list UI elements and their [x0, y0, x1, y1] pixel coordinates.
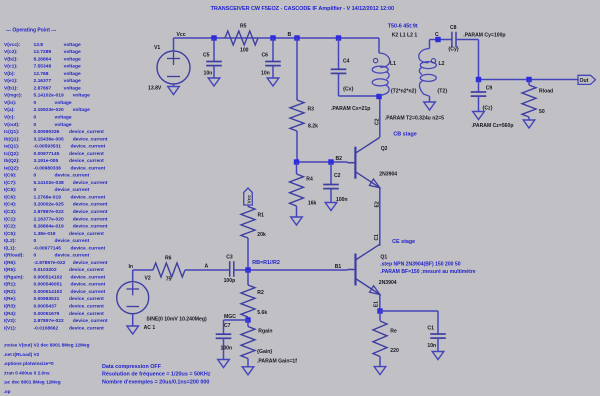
- svg-text:device_current: device_current: [73, 136, 108, 142]
- svg-text:I(Rgain):: I(Rgain):: [4, 274, 24, 280]
- Out port flag: [578, 75, 596, 84]
- svg-text:0: 0: [34, 253, 37, 259]
- svg-text:0: 0: [34, 122, 37, 128]
- junction at C2cap: [328, 159, 333, 164]
- svg-text:I(C4):: I(C4):: [4, 202, 17, 208]
- svg-text:C5: C5: [203, 53, 210, 59]
- svg-text:E1: E1: [374, 301, 380, 307]
- svg-text:R3: R3: [308, 107, 315, 113]
- svg-text:1.2768e-019: 1.2768e-019: [34, 195, 62, 201]
- svg-text:voltage: voltage: [55, 122, 72, 128]
- svg-text:Ic(Q1):: Ic(Q1):: [4, 129, 20, 135]
- resistor R2: [247, 270, 249, 285]
- svg-text:0.00983531: 0.00983531: [34, 296, 60, 302]
- svg-text:2.16377e-020: 2.16377e-020: [34, 216, 64, 222]
- svg-text:voltage: voltage: [64, 85, 81, 91]
- svg-text:B1: B1: [335, 264, 342, 270]
- resistor Re: [379, 311, 381, 321]
- svg-text:R6: R6: [165, 256, 172, 262]
- svg-text:V(e1):: V(e1):: [4, 78, 18, 84]
- wire node B2: [297, 161, 348, 163]
- svg-text:I(R3):: I(R3):: [4, 304, 17, 310]
- inductor L2: [429, 40, 431, 49]
- svg-text:device_current: device_current: [73, 180, 108, 186]
- svg-text:A: A: [205, 264, 209, 270]
- svg-text:device_current: device_current: [69, 296, 104, 302]
- svg-text:-0.0108662: -0.0108662: [34, 325, 59, 331]
- svg-text:C7: C7: [224, 323, 231, 329]
- svg-text:0.00590336: 0.00590336: [34, 129, 60, 135]
- svg-text:Rload: Rload: [539, 89, 553, 95]
- transistor Q2: [354, 147, 356, 179]
- resistor R5: [225, 31, 258, 45]
- svg-text:50: 50: [539, 109, 545, 115]
- svg-text:100: 100: [240, 48, 249, 54]
- ground of C6: [267, 78, 279, 86]
- svg-text:;ac dec 8001 8Meg 12Meg: ;ac dec 8001 8Meg 12Meg: [4, 380, 61, 385]
- svg-text:CE stage: CE stage: [392, 239, 415, 245]
- svg-text:I(R6):: I(R6):: [4, 260, 17, 266]
- svg-text:device_current: device_current: [69, 158, 104, 164]
- svg-text:10n: 10n: [427, 343, 436, 349]
- svg-text:SINE(0 10mV 10.240Meg): SINE(0 10mV 10.240Meg): [146, 317, 207, 323]
- svg-text:I(Rload):: I(Rload):: [4, 253, 24, 259]
- svg-text:device_current: device_current: [73, 260, 108, 266]
- svg-text:2.87897e-022: 2.87897e-022: [34, 318, 64, 324]
- svg-text:voltage: voltage: [64, 56, 81, 62]
- svg-text:10n: 10n: [204, 70, 213, 76]
- svg-text:8.26864e-019: 8.26864e-019: [34, 224, 64, 230]
- svg-text:device_current: device_current: [69, 129, 104, 135]
- svg-text:R5: R5: [240, 23, 247, 29]
- svg-text:device_current: device_current: [69, 267, 104, 273]
- svg-text:0: 0: [34, 100, 37, 106]
- svg-text:E2: E2: [375, 201, 381, 207]
- wire Vcc top rail: [174, 37, 380, 39]
- svg-text:{Cx}: {Cx}: [343, 87, 353, 93]
- junction at C6: [270, 35, 275, 40]
- svg-text:10n: 10n: [261, 70, 270, 76]
- svg-text:12.768: 12.768: [34, 71, 49, 77]
- svg-text:0: 0: [34, 187, 37, 193]
- svg-text:voltage: voltage: [64, 78, 81, 84]
- svg-text:MGC: MGC: [224, 314, 236, 320]
- svg-text:I(C7):: I(C7):: [4, 180, 17, 186]
- resistor R6: [153, 263, 185, 277]
- svg-text:device_current: device_current: [73, 202, 108, 208]
- svg-text:V(a):: V(a):: [4, 107, 15, 113]
- svg-text:I(R4):: I(R4):: [4, 311, 17, 317]
- svg-text:device_current: device_current: [69, 231, 104, 237]
- junction C9: [476, 77, 481, 82]
- svg-text:Vcc: Vcc: [246, 195, 252, 204]
- ground of V2: [132, 314, 134, 326]
- ground of L2: [429, 96, 431, 102]
- svg-text:Ie(Q1):: Ie(Q1):: [4, 144, 20, 150]
- ground of Re: [374, 367, 386, 375]
- svg-text:Ib(Q1):: Ib(Q1):: [4, 136, 20, 142]
- svg-text:V(b):: V(b):: [4, 71, 16, 77]
- svg-text:device_current: device_current: [71, 165, 106, 171]
- svg-text:C1: C1: [374, 234, 380, 241]
- capacitor C8: [451, 32, 453, 48]
- wire E1 to C1: [380, 310, 438, 312]
- svg-text:voltage: voltage: [73, 93, 90, 99]
- junction MGC: [245, 317, 250, 322]
- svg-text:L1: L1: [390, 61, 396, 67]
- svg-text:R4: R4: [306, 177, 313, 183]
- svg-text:I(C8):: I(C8):: [4, 187, 17, 193]
- svg-text:8.2k: 8.2k: [308, 123, 318, 129]
- capacitor C7: [223, 320, 225, 334]
- svg-text:I(C2):: I(C2):: [4, 224, 17, 230]
- svg-text:device_current: device_current: [69, 304, 104, 310]
- ground of C1: [432, 352, 444, 360]
- svg-text:{Cy}: {Cy}: [448, 47, 458, 53]
- svg-text:C4: C4: [343, 58, 350, 64]
- svg-text:CB stage: CB stage: [393, 132, 416, 138]
- svg-text:-0.00593531: -0.00593531: [34, 144, 62, 150]
- svg-text:Q2: Q2: [381, 146, 388, 152]
- svg-text:16k: 16k: [308, 201, 317, 207]
- svg-text:Ib(Q2):: Ib(Q2):: [4, 158, 20, 164]
- svg-text:;noise V(out) V2 dec 8001 8Meg: ;noise V(out) V2 dec 8001 8Meg 12Meg: [4, 343, 90, 348]
- svg-text:3.20002e-025: 3.20002e-025: [34, 202, 64, 208]
- svg-text:I(V2):: I(V2):: [4, 318, 17, 324]
- svg-text:C2: C2: [375, 118, 381, 125]
- svg-text:100n: 100n: [221, 346, 233, 352]
- svg-text:V(out):: V(out):: [4, 122, 20, 128]
- svg-text:device_current: device_current: [71, 289, 106, 295]
- svg-text:I(C6):: I(C6):: [4, 195, 17, 201]
- svg-text:device_current: device_current: [71, 195, 106, 201]
- svg-text:.PARAM Gain=1f: .PARAM Gain=1f: [257, 359, 297, 365]
- svg-text:V(b1):: V(b1):: [4, 85, 18, 91]
- wire Q2 collector: [379, 97, 381, 138]
- svg-text:Résolution de fréquence = 1/20: Résolution de fréquence = 1/20us = 50KHz: [102, 372, 211, 378]
- junction E1: [377, 308, 382, 313]
- svg-text:V(c2):: V(c2):: [4, 49, 18, 55]
- svg-text:device_current: device_current: [73, 318, 108, 324]
- svg-text:T50-6 45t:9t: T50-6 45t:9t: [388, 23, 418, 29]
- junction at C4: [336, 35, 341, 40]
- svg-text:0.0005437: 0.0005437: [34, 304, 57, 310]
- ground of C5: [208, 78, 220, 86]
- ground of Rgain: [242, 367, 254, 375]
- svg-text:Vcc: Vcc: [177, 32, 186, 38]
- wire L2 to C8: [430, 39, 452, 41]
- svg-text:V(c):: V(c):: [4, 115, 15, 121]
- svg-text:7.55348: 7.55348: [34, 64, 52, 70]
- svg-text:device_current: device_current: [69, 151, 104, 157]
- ground of C2: [325, 203, 337, 211]
- svg-text:device_current: device_current: [71, 274, 106, 280]
- svg-text:13.8: 13.8: [34, 42, 44, 48]
- svg-text:device_current: device_current: [55, 173, 90, 179]
- simulation note text: [102, 364, 211, 386]
- svg-text:C8: C8: [450, 25, 457, 31]
- svg-text:.op: .op: [4, 389, 11, 394]
- resistor Rgain: [247, 320, 249, 327]
- svg-text:Re: Re: [390, 329, 397, 335]
- transistor Q1: [354, 254, 356, 286]
- wire out rail: [479, 79, 579, 81]
- svg-text:Ic(Q2):: Ic(Q2):: [4, 151, 20, 157]
- svg-text:0.000514102: 0.000514102: [34, 289, 63, 295]
- svg-text:C3: C3: [226, 255, 233, 261]
- svg-text:12.7289: 12.7289: [34, 49, 52, 55]
- svg-text:.PARAM T2=0.324u n2=5: .PARAM T2=0.324u n2=5: [385, 115, 444, 121]
- svg-text:2.87897e-022: 2.87897e-022: [34, 209, 64, 215]
- svg-text:V2: V2: [145, 276, 151, 282]
- svg-text:device_current: device_current: [69, 325, 104, 331]
- svg-text:voltage: voltage: [64, 42, 81, 48]
- svg-text:Data compression OFF: Data compression OFF: [102, 364, 162, 370]
- svg-text:In: In: [129, 264, 134, 270]
- voltage source V1: [173, 38, 175, 51]
- svg-text:voltage: voltage: [55, 100, 72, 106]
- svg-text:V1: V1: [154, 45, 160, 51]
- svg-text:device_current: device_current: [69, 311, 104, 317]
- svg-text:8.26864: 8.26864: [34, 56, 52, 62]
- svg-text:device_current: device_current: [55, 238, 90, 244]
- svg-text:75: 75: [166, 277, 172, 283]
- svg-text:device_current: device_current: [71, 245, 106, 251]
- svg-text:device_current: device_current: [71, 282, 106, 288]
- wire Q2 emitter to Q1 collector: [379, 188, 381, 246]
- ground of Rload: [523, 120, 535, 128]
- svg-text:I(R2):: I(R2):: [4, 289, 17, 295]
- wire node B1: [248, 269, 348, 271]
- junction node C: [435, 37, 440, 42]
- svg-text:C6: C6: [262, 53, 269, 59]
- svg-text:I(Re):: I(Re):: [4, 296, 17, 302]
- capacitor C4: [338, 38, 340, 69]
- junction Rload: [526, 77, 531, 82]
- svg-text:1.38e-019: 1.38e-019: [34, 231, 56, 237]
- capacitor C9: [478, 80, 480, 93]
- svg-text:I(C9):: I(C9):: [4, 173, 17, 179]
- svg-text:0.00977145: 0.00977145: [34, 151, 60, 157]
- svg-text:-2.87897e-022: -2.87897e-022: [34, 260, 66, 266]
- wire C8 down to out rail: [478, 40, 480, 80]
- junction at C5: [211, 35, 216, 40]
- svg-text:V(in):: V(in):: [4, 100, 17, 106]
- svg-text:.PARAM Cy=100p: .PARAM Cy=100p: [463, 33, 505, 39]
- svg-text:0: 0: [34, 115, 37, 121]
- svg-text:device_current: device_current: [71, 144, 106, 150]
- svg-text:2N3904: 2N3904: [379, 172, 397, 178]
- junction RB: [245, 267, 250, 272]
- svg-text:device_current: device_current: [73, 209, 108, 215]
- svg-text:voltage: voltage: [64, 49, 81, 55]
- svg-text:3.191e-005: 3.191e-005: [34, 158, 59, 164]
- svg-text:100p: 100p: [224, 278, 236, 284]
- svg-text:V(mgc):: V(mgc):: [4, 93, 23, 99]
- svg-text:2.16377: 2.16377: [34, 78, 52, 84]
- svg-text:I(C5):: I(C5):: [4, 231, 17, 237]
- resistor R1: [247, 205, 249, 207]
- svg-text:I(C3):: I(C3):: [4, 209, 17, 215]
- svg-text:Q1: Q1: [380, 254, 387, 260]
- svg-text:0.000514102: 0.000514102: [34, 274, 63, 280]
- capacitor C3: [229, 261, 231, 277]
- svg-text:B2: B2: [336, 156, 343, 162]
- junction L1 bottom: [376, 94, 381, 99]
- ground of V1: [173, 84, 175, 87]
- wire A segment: [185, 269, 230, 271]
- svg-text:;tran 0 400us 0 2.0ns: ;tran 0 400us 0 2.0ns: [4, 370, 51, 375]
- svg-text:0: 0: [34, 238, 37, 244]
- svg-text:20k: 20k: [257, 232, 266, 238]
- junction R3-R4: [294, 159, 299, 164]
- ground of C9: [473, 112, 485, 120]
- svg-text:I(L2):: I(L2):: [4, 238, 16, 244]
- svg-text:device_current: device_current: [73, 216, 108, 222]
- svg-text:13.8V: 13.8V: [148, 85, 162, 91]
- svg-text:voltage: voltage: [64, 71, 81, 77]
- spice directives: [4, 343, 90, 394]
- svg-text:-0.00977145: -0.00977145: [34, 245, 62, 251]
- svg-text:2N3904: 2N3904: [379, 280, 397, 286]
- inductor L1: [378, 38, 380, 53]
- capacitor C2: [330, 162, 332, 185]
- svg-text:5.14102e-019: 5.14102e-019: [34, 93, 64, 99]
- capacitor C5: [213, 38, 215, 62]
- svg-text:R2: R2: [257, 290, 264, 296]
- wire MGC to C7: [224, 319, 249, 321]
- svg-text:TRANSCEIVER CW F5EOZ - CASCODE: TRANSCEIVER CW F5EOZ - CASCODE IF Amplif…: [211, 6, 394, 12]
- svg-text:voltage: voltage: [64, 64, 81, 70]
- svg-text:voltage: voltage: [73, 107, 90, 113]
- svg-text:0.000546051: 0.000546051: [34, 282, 63, 288]
- resistor Rload: [528, 80, 530, 86]
- svg-text:Ie(Q2):: Ie(Q2):: [4, 165, 20, 171]
- ground of R4: [291, 217, 303, 225]
- svg-text:K2 L1 L2 1: K2 L1 L2 1: [392, 33, 418, 39]
- svg-text:I(L1):: I(L1):: [4, 245, 16, 251]
- svg-text:.step NPN 2N3904(BF) 150 200 5: .step NPN 2N3904(BF) 150 200 50: [380, 262, 461, 268]
- svg-text:2.15923e-020: 2.15923e-020: [34, 107, 64, 113]
- svg-text:C1: C1: [427, 326, 434, 332]
- wire In rail: [133, 269, 153, 271]
- ground of C7: [218, 360, 230, 368]
- svg-text:{Gain}: {Gain}: [257, 349, 272, 355]
- svg-text:voltage: voltage: [55, 115, 72, 121]
- svg-text:I(R5):: I(R5):: [4, 267, 17, 273]
- svg-text:0.00051679: 0.00051679: [34, 311, 60, 317]
- voltage source V2: [132, 270, 134, 282]
- junction at node B: [294, 35, 299, 40]
- svg-text:5.6k: 5.6k: [257, 310, 267, 316]
- svg-text:-0.00980336: -0.00980336: [34, 165, 62, 171]
- capacitor C1: [437, 311, 439, 334]
- resistor R4: [296, 162, 298, 174]
- svg-text:C2: C2: [334, 173, 341, 179]
- Vcc net flag: [244, 188, 253, 205]
- svg-text:5.14102e-038: 5.14102e-038: [34, 180, 64, 186]
- svg-text:2.87897: 2.87897: [34, 85, 52, 91]
- svg-text:R1: R1: [258, 213, 265, 219]
- svg-text:3.15436e-005: 3.15436e-005: [34, 136, 64, 142]
- svg-text:{T2}: {T2}: [437, 89, 447, 95]
- svg-text:Out: Out: [580, 78, 589, 84]
- resistor R3: [296, 38, 298, 100]
- svg-text:0: 0: [34, 173, 37, 179]
- svg-text:B: B: [288, 32, 292, 38]
- svg-text:.PARAM Cz=560p: .PARAM Cz=560p: [472, 123, 514, 129]
- svg-text:V(c1):: V(c1):: [4, 64, 18, 70]
- svg-text:device_current: device_current: [55, 253, 90, 259]
- svg-text:L2: L2: [439, 61, 445, 67]
- svg-text:I(R1):: I(R1):: [4, 282, 17, 288]
- capacitor C6: [272, 38, 274, 62]
- svg-text:0.0103202: 0.0103202: [34, 267, 57, 273]
- svg-text:Rgain: Rgain: [258, 328, 272, 334]
- svg-text:device_current: device_current: [55, 187, 90, 193]
- svg-text:C9: C9: [486, 86, 493, 92]
- svg-text:AC 1: AC 1: [144, 325, 156, 331]
- svg-text:.net I(RLoad) V2: .net I(RLoad) V2: [4, 352, 40, 357]
- svg-text:Nombre d'exemples = 20us/0.1ns: Nombre d'exemples = 20us/0.1ns=200 000: [102, 379, 209, 385]
- wire Q1 emitter: [379, 294, 381, 311]
- svg-text:V(b2):: V(b2):: [4, 56, 18, 62]
- svg-text:.PARAM Cx=21p: .PARAM Cx=21p: [331, 106, 370, 112]
- svg-text:{T2*n2*n2}: {T2*n2*n2}: [391, 89, 417, 95]
- svg-text:{Cz}: {Cz}: [482, 106, 492, 112]
- svg-text:220: 220: [390, 348, 399, 354]
- svg-text:.PARAM BF=150 ;mesuré au multi: .PARAM BF=150 ;mesuré au multimètre: [380, 269, 476, 275]
- svg-text:--- Operating Point ---: --- Operating Point ---: [6, 27, 57, 33]
- svg-text:RB=R1//R2: RB=R1//R2: [252, 260, 280, 266]
- svg-text:V(vcc):: V(vcc):: [4, 42, 21, 48]
- svg-text:device_current: device_current: [73, 224, 108, 230]
- svg-text:I(V1):: I(V1):: [4, 325, 17, 331]
- operating point rows: [4, 42, 108, 332]
- svg-text:I(C1):: I(C1):: [4, 216, 17, 222]
- svg-text:.options plotwinsize=0: .options plotwinsize=0: [4, 361, 55, 366]
